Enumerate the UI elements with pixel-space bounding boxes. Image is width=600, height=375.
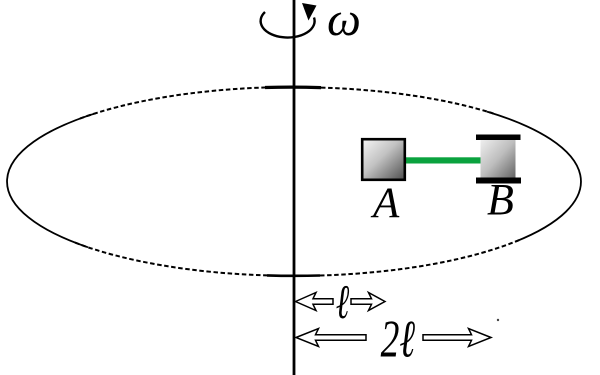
ellipse dashed top-left arc — [80, 88, 265, 119]
block B top flange — [476, 135, 521, 141]
svg-text:B: B — [487, 175, 514, 224]
ellipse dashed bottom-right arc — [320, 240, 520, 276]
svg-text:A: A — [370, 180, 400, 227]
rotation arrowhead — [302, 3, 317, 21]
dimension 2l: right outline arrow — [423, 329, 491, 347]
stray ink dot — [497, 319, 499, 321]
dimension l: left outline arrow — [296, 293, 334, 311]
green rod connecting A and B — [402, 157, 482, 163]
axis (vertical rotation axis) — [293, 0, 296, 375]
svg-text:ℓ: ℓ — [336, 275, 349, 329]
ellipse solid left arc — [7, 113, 97, 248]
ellipse dashed bottom-left arc — [75, 243, 267, 276]
block A — [362, 139, 405, 180]
ellipse solid right arc — [487, 112, 581, 242]
ellipse dashed top-right arc — [321, 88, 495, 114]
svg-text:ω: ω — [327, 0, 361, 46]
svg-text:2ℓ: 2ℓ — [381, 309, 415, 368]
ellipse top apex solid segment — [265, 85, 321, 89]
dimension 2l: left outline arrow — [296, 329, 366, 347]
block B body — [481, 140, 516, 179]
block B bottom flange — [476, 178, 521, 184]
rotation arrow arc — [261, 12, 315, 38]
ellipse bottom apex solid segment — [267, 274, 320, 277]
dimension l: right outline arrow — [351, 293, 385, 311]
